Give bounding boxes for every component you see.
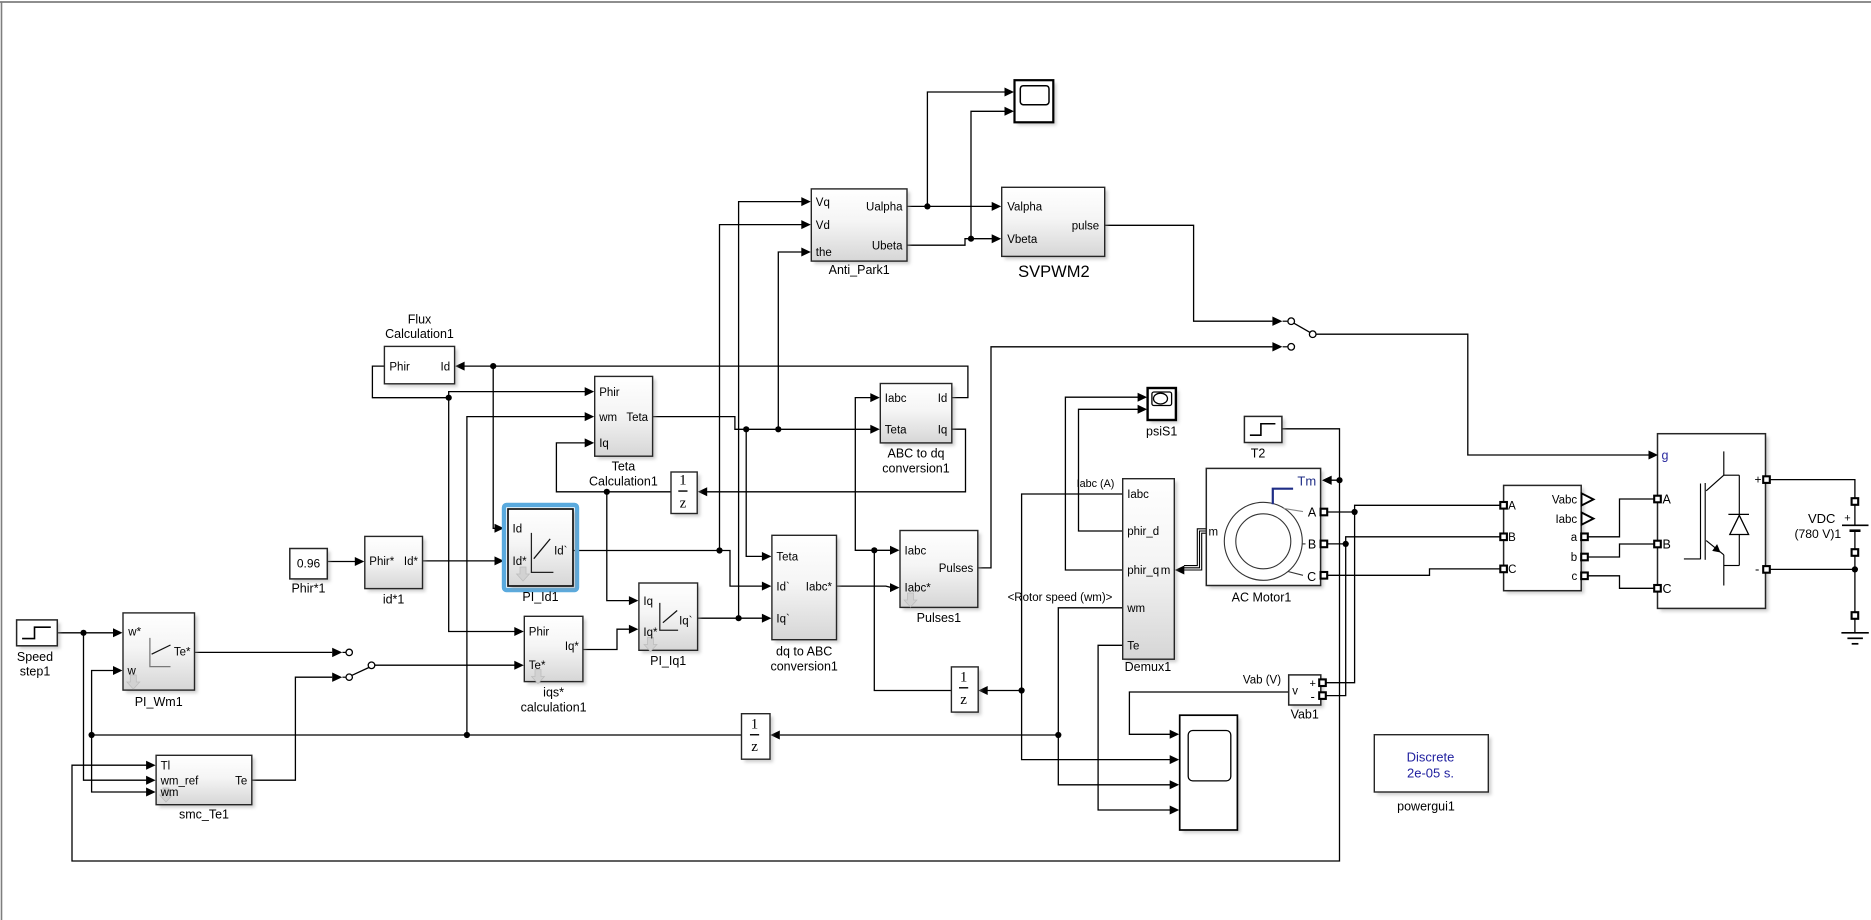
svg-text:dq to ABC: dq to ABC — [776, 645, 832, 659]
block Three-phase V-I Measurement1 — [1507, 488, 1585, 593]
svg-text:iqs*: iqs* — [543, 686, 564, 700]
svg-text:Ubeta: Ubeta — [872, 240, 903, 252]
wire Ualpha branch up to Scope input 1 — [927, 92, 1006, 206]
inverter IGBT symbol — [1684, 451, 1739, 585]
svg-text:psiS1: psiS1 — [1146, 425, 1177, 439]
block psiS1 scope — [1151, 391, 1179, 423]
wire inverter + to VDC battery — [1769, 480, 1855, 499]
wire Pulses1 out to manual switch1 lower throw — [978, 347, 1273, 568]
wire iqs* calculation1 Iq* output to PI_Iq1 Iq* input — [583, 629, 631, 649]
svg-text:v: v — [1292, 685, 1298, 697]
svg-text:Iabc*: Iabc* — [806, 581, 833, 593]
wire inverter - to VDC negative node — [1769, 568, 1855, 570]
manual switch1 upper throw circle — [1288, 318, 1295, 325]
svg-text:PI_Id1: PI_Id1 — [522, 590, 558, 604]
svg-text:Discrete: Discrete — [1407, 750, 1455, 765]
svg-text:wm: wm — [1126, 603, 1145, 615]
svg-text:B: B — [1663, 537, 1671, 551]
junction Teta to Anti_Park the — [775, 426, 781, 432]
AC Motor1 Tm input arrow — [1322, 476, 1332, 485]
svg-text:Phir*1: Phir*1 — [291, 582, 325, 596]
block Scope (top) — [1018, 83, 1057, 125]
wire Speed step1 to PI_Wm1 w* input — [57, 632, 114, 634]
svg-text:Te: Te — [1127, 641, 1139, 653]
wire phase B branch down to Vab1 - — [1326, 544, 1346, 696]
svg-text:z: z — [680, 495, 687, 511]
AC Motor1 internal port leads — [1283, 508, 1303, 511]
unit delay 1/z (Iabc loop) — [954, 670, 981, 715]
wire measurement c to inverter C — [1585, 576, 1655, 589]
svg-text:Iq: Iq — [938, 424, 948, 436]
svg-text:Iabc: Iabc — [885, 393, 907, 405]
block Flux Calculation1 — [387, 349, 457, 386]
svg-text:Iq`: Iq` — [776, 613, 789, 625]
svg-text:Id`: Id` — [776, 581, 789, 593]
junction on Ubeta wire — [968, 236, 974, 242]
svg-text:+: + — [1844, 512, 1850, 524]
wire Id branch down to PI_Id1 Id input — [493, 366, 496, 528]
svg-text:wm: wm — [598, 412, 617, 424]
block Anti_Park1 — [814, 192, 910, 264]
svg-text:z: z — [751, 739, 758, 755]
block smc_Te1 — [159, 758, 255, 807]
canvas frame top edge — [0, 1, 1871, 3]
wire Iabc branch down to Scope1 input 2 — [1022, 691, 1172, 760]
svg-text:C: C — [1663, 582, 1672, 596]
block powergui1 — [1377, 738, 1491, 795]
svg-text:(780 V)1: (780 V)1 — [1794, 527, 1841, 541]
svg-text:C: C — [1508, 564, 1516, 576]
svg-text:Id*: Id* — [404, 556, 419, 568]
svg-text:A: A — [1508, 501, 1516, 513]
junction load torque — [1336, 477, 1342, 483]
manual switch2 common circle — [368, 662, 375, 669]
inverter IGBT emitter arrowhead — [1712, 544, 1720, 552]
measurement input pads A B C — [1500, 502, 1507, 509]
wire Ubeta branch up to Scope input 2 — [971, 111, 1006, 238]
svg-text:Teta: Teta — [776, 552, 798, 564]
svg-text:1: 1 — [960, 669, 968, 685]
wire Teta branch down to dq to ABC Teta input — [746, 429, 763, 556]
wire wm branch up to Teta Calculation1 wm input — [467, 417, 586, 735]
wire Id` branch up to Anti_Park1 Vd input — [720, 225, 803, 551]
wire PI_Id1 Id` output to dq-to-ABC Id` input — [573, 551, 763, 587]
wire switch1 common to inverter gate g — [1316, 334, 1649, 455]
block PI_Wm1 — [126, 616, 198, 693]
svg-text:Iq`: Iq` — [679, 616, 692, 628]
canvas frame left edge — [1, 2, 3, 920]
wire Vab1 v output to Scope1 input 1 — [1129, 692, 1288, 734]
wire Iq` branch up to Anti_Park1 Vq input — [739, 202, 803, 619]
block ABC to dq conversion1 — [883, 387, 955, 446]
block dq to ABC conversion1 — [775, 538, 840, 642]
wire AC Motor1 phase C to measurement C — [1324, 569, 1500, 575]
wire switch2 common to iqs* calculation1 Te* input — [375, 664, 516, 666]
svg-text:conversion1: conversion1 — [882, 462, 949, 476]
svg-text:Teta: Teta — [626, 412, 648, 424]
svg-text:pulse: pulse — [1072, 221, 1100, 233]
measurement unconnected output chevrons Vabc Iabc — [1582, 493, 1594, 505]
svg-text:Id: Id — [513, 524, 523, 536]
svg-text:Te: Te — [235, 775, 247, 787]
svg-text:A: A — [1308, 505, 1317, 519]
svg-text:Iabc: Iabc — [1555, 514, 1577, 526]
junction delayed Iabc — [871, 547, 877, 553]
wire Ualpha: Anti_Park1 out to SVPWM2 Valpha — [907, 205, 993, 207]
wire Id: ABC-to-dq Id output back to Flux Calculation1 Id input — [464, 366, 968, 398]
svg-text:Anti_Park1: Anti_Park1 — [829, 263, 890, 277]
svg-text:Flux: Flux — [408, 313, 432, 327]
svg-text:Vab1: Vab1 — [1291, 708, 1319, 722]
svg-text:Phir: Phir — [529, 627, 550, 639]
svg-text:Calculation1: Calculation1 — [589, 475, 658, 489]
svg-text:-: - — [1311, 689, 1315, 704]
junction phase B — [1343, 541, 1349, 547]
svg-text:wm: wm — [160, 787, 179, 799]
wire measurement b to inverter B — [1585, 544, 1655, 557]
svg-text:ABC to dq: ABC to dq — [888, 447, 945, 461]
svg-text:AC Motor1: AC Motor1 — [1232, 591, 1292, 605]
wire speed reference branch down to smc_Te1 wm_ref — [84, 633, 148, 780]
svg-text:w: w — [127, 666, 137, 678]
junction wm to bottom scope — [1055, 732, 1061, 738]
measurement output pads a b c — [1581, 534, 1588, 541]
ground symbol — [1841, 632, 1868, 634]
svg-text:phir_q: phir_q — [1127, 565, 1159, 577]
svg-text:-: - — [1755, 562, 1759, 577]
svg-text:Valpha: Valpha — [1007, 202, 1043, 214]
wire Phir branch down to iqs* calculation1 Phir input — [449, 398, 516, 632]
junction on Ualpha wire — [924, 203, 930, 209]
block Scope1 (bottom) — [1183, 718, 1241, 833]
junction Id` to Anti_Park Vd — [716, 547, 722, 553]
svg-text:B: B — [1308, 537, 1316, 551]
wire PI_Iq1 Iq` output to dq-to-ABC Iq` input — [698, 617, 764, 619]
unit delay 1/z (Teta loop) — [674, 475, 700, 517]
VDC battery source — [1852, 498, 1859, 505]
wire wm branch down to smc_Te1 wm input — [92, 735, 148, 792]
svg-text:phir_d: phir_d — [1127, 526, 1159, 538]
wire Iq: ABC-to-dq Iq output to unit delay1 input — [707, 429, 966, 492]
svg-text:Pulses: Pulses — [939, 563, 974, 575]
svg-text:Phir: Phir — [389, 361, 410, 373]
block Demux1 — [1126, 482, 1178, 663]
svg-text:wm_ref: wm_ref — [160, 775, 200, 787]
svg-text:Id: Id — [938, 393, 948, 405]
svg-text:Iq: Iq — [643, 596, 653, 608]
svg-text:Tl: Tl — [161, 760, 171, 772]
svg-text:Iabc: Iabc — [1127, 489, 1149, 501]
block Vab1 voltage measurement — [1292, 678, 1324, 708]
wire smc_Te1 Te output to manual switch2 lower throw — [252, 677, 332, 780]
svg-text:C: C — [1307, 570, 1316, 584]
svg-text:Vbeta: Vbeta — [1007, 234, 1038, 246]
manual switch2 lever — [352, 668, 369, 676]
block AC Motor1 — [1209, 471, 1323, 588]
wire delayed Iabc branch up to ABC-to-dq Iabc input — [855, 398, 874, 551]
svg-text:Iq: Iq — [599, 438, 609, 450]
svg-text:Id: Id — [441, 361, 451, 373]
svg-text:Iabc (A): Iabc (A) — [1077, 478, 1115, 490]
svg-text:m: m — [1209, 527, 1219, 539]
svg-text:Teta: Teta — [612, 460, 636, 474]
manual switch1 lever — [1294, 323, 1310, 332]
wire delay2 output to Pulses1 Iabc input — [874, 550, 951, 690]
bus wire AC Motor1 m to Demux1 m (3 strands) — [1184, 529, 1206, 566]
svg-text:0.96: 0.96 — [297, 557, 321, 571]
AC Motor1 phase pads — [1321, 509, 1328, 516]
wire Phir: Flux Calculation1 output loops to Teta Calculation1 Phir — [372, 366, 586, 398]
svg-text:PI_Wm1: PI_Wm1 — [135, 695, 183, 709]
wire constant 0.96 to id*1 Phir* input — [327, 561, 356, 563]
wire wm branch up to PI_Wm1 w input — [92, 671, 115, 736]
svg-text:Calculation1: Calculation1 — [385, 327, 454, 341]
svg-text:calculation1: calculation1 — [521, 701, 587, 715]
svg-text:Vd: Vd — [816, 220, 830, 232]
svg-text:Phir*: Phir* — [369, 556, 394, 568]
junction Iq` to Anti_Park Vq — [736, 615, 742, 621]
svg-text:Iq*: Iq* — [565, 641, 580, 653]
svg-text:Ualpha: Ualpha — [866, 202, 903, 214]
block Speed step1 — [20, 623, 61, 649]
svg-text:Vab (V): Vab (V) — [1243, 675, 1281, 687]
wire Demux1 phir_q to psiS1 input 1 — [1065, 397, 1139, 570]
wire delay1 output to Teta Calculation1 Iq input — [556, 443, 671, 492]
svg-text:step1: step1 — [20, 665, 51, 679]
svg-text:z: z — [960, 692, 967, 708]
junction phase A — [1352, 509, 1358, 515]
svg-text:PI_Iq1: PI_Iq1 — [650, 654, 686, 668]
svg-text:<Rotor speed (wm)>: <Rotor speed (wm)> — [1008, 592, 1113, 604]
svg-text:Iabc*: Iabc* — [905, 583, 932, 595]
wire delayed Iq branch down to PI_Iq1 Iq input — [607, 492, 631, 601]
wire Demux1 phir_d to psiS1 input 2 — [1079, 409, 1140, 531]
junction Id wire to PI_Id1 — [490, 363, 496, 369]
svg-text:the: the — [816, 247, 832, 259]
manual switch1 lower throw circle — [1288, 344, 1295, 351]
svg-text:A: A — [1663, 492, 1672, 506]
svg-text:smc_Te1: smc_Te1 — [179, 808, 229, 822]
svg-text:Vq: Vq — [816, 197, 830, 209]
wire PI_Wm1 Te* output to manual switch2 upper throw — [195, 651, 333, 653]
wire AC Motor1 phase A to measurement A — [1324, 505, 1500, 512]
svg-text:conversion1: conversion1 — [770, 660, 837, 674]
junction delayed Iq to PI_Iq1 — [604, 489, 610, 495]
wire Demux1 Te to Scope1 input 4 — [1098, 645, 1171, 810]
svg-text:Id`: Id` — [554, 546, 567, 558]
svg-text:2e-05 s.: 2e-05 s. — [1407, 766, 1454, 781]
svg-text:B: B — [1508, 532, 1516, 544]
svg-text:Te*: Te* — [529, 660, 546, 672]
junction delayed wm to Teta Calculation1 — [464, 732, 470, 738]
junction VDC negative — [1852, 566, 1858, 572]
wire phase A branch down to Vab1 + — [1326, 512, 1354, 683]
wire SVPWM2 pulse to manual switch1 upper throw — [1105, 225, 1273, 321]
block PI_Iq1 — [642, 586, 701, 653]
svg-text:m: m — [1161, 565, 1171, 577]
inverter pads — [1654, 496, 1661, 503]
svg-text:1: 1 — [679, 473, 687, 489]
block constant 0.96 (Phir*1) — [293, 552, 331, 582]
junction Teta to dq-to-ABC — [743, 426, 749, 432]
wire AC Motor1 phase B to measurement B — [1324, 537, 1500, 544]
junction Phir to iqs* calculation — [446, 395, 452, 401]
svg-text:powergui1: powergui1 — [1397, 800, 1455, 814]
junction speed reference — [80, 630, 86, 636]
inverter g input arrow — [1649, 451, 1659, 460]
block PI_Id1 — [511, 512, 576, 589]
block id*1 — [368, 539, 426, 591]
svg-text:id*1: id*1 — [383, 593, 405, 607]
selection highlight around PI_Id1 — [504, 505, 577, 590]
svg-text:g: g — [1662, 449, 1669, 463]
svg-text:Iq*: Iq* — [643, 627, 658, 639]
svg-text:Tm: Tm — [1297, 474, 1316, 489]
wire Teta: Teta Calculation1 out to ABC to dq Teta — [653, 417, 872, 430]
manual switch1 common circle — [1309, 331, 1316, 338]
svg-text:c: c — [1571, 571, 1577, 583]
wire VDC battery stem and ground stem — [1854, 504, 1856, 525]
svg-text:Id*: Id* — [513, 556, 528, 568]
svg-text:Pulses1: Pulses1 — [917, 611, 962, 625]
block iqs* calculation1 — [527, 619, 586, 684]
block Teta Calculation1 — [598, 379, 656, 459]
wire measurement a to inverter A — [1585, 499, 1655, 537]
wire wm branch down to Scope1 input 3 — [1058, 735, 1171, 785]
svg-text:Phir: Phir — [599, 387, 620, 399]
svg-text:Te*: Te* — [174, 647, 191, 659]
svg-text:Iabc: Iabc — [905, 546, 927, 558]
svg-text:VDC: VDC — [1808, 511, 1835, 526]
svg-text:Demux1: Demux1 — [1125, 660, 1172, 674]
wire Demux1 Iabc output to unit delay2 — [986, 494, 1122, 691]
wire id*1 Id* output to PI_Id1 Id* input — [423, 560, 497, 562]
svg-text:T2: T2 — [1251, 447, 1266, 461]
manual switch2 upper throw circle — [346, 649, 352, 655]
wire Ubeta: Anti_Park1 out to SVPWM2 Vbeta — [907, 239, 993, 246]
svg-text:Vabc: Vabc — [1552, 495, 1578, 507]
svg-text:a: a — [1571, 532, 1578, 544]
wire load torque long feedback to smc_Te1 Tl input — [72, 480, 1340, 861]
svg-text:b: b — [1571, 552, 1577, 564]
block Universal Bridge inverter — [1661, 437, 1769, 612]
wire wm: Demux1 wm output to unit delay3 input — [780, 608, 1123, 735]
junction Iabc(A) wire — [1019, 687, 1025, 693]
manual switch2 lower throw circle — [346, 674, 352, 680]
wire delay3 output: delayed wm feedback line — [92, 734, 742, 736]
AC Motor1 Tm blue marker — [1273, 489, 1293, 505]
svg-text:Speed: Speed — [17, 650, 53, 664]
svg-text:w*: w* — [127, 626, 141, 638]
block SVPWM2 — [1005, 190, 1108, 259]
junction delayed wm to PI_Wm1 and smc_Te1 — [89, 732, 95, 738]
svg-text:Teta: Teta — [885, 424, 907, 436]
svg-text:1: 1 — [751, 716, 759, 732]
wire T2 step to AC Motor1 Tm input — [1282, 429, 1340, 480]
svg-text:SVPWM2: SVPWM2 — [1018, 263, 1090, 281]
inverter diode symbol — [1728, 513, 1749, 515]
svg-text:+: + — [1755, 473, 1762, 487]
block T2 step — [1247, 419, 1285, 445]
wire Teta branch up to Anti_Park1 the input — [778, 252, 803, 429]
block Pulses1 — [903, 534, 981, 611]
wire dq-to-ABC Iabc* output to Pulses1 Iabc* input — [837, 586, 892, 588]
unit delay 1/z (wm loop) — [745, 717, 774, 763]
